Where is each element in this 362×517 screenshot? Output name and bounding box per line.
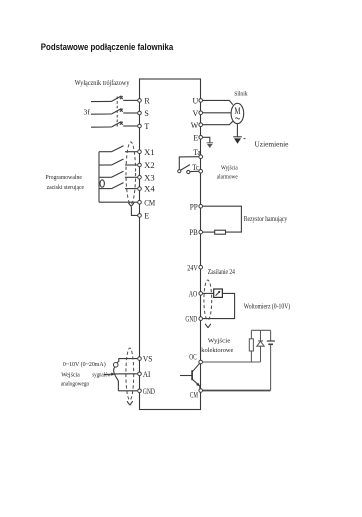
terminal X2 xyxy=(138,161,155,170)
terminal PP xyxy=(190,202,203,211)
terminal VS xyxy=(138,355,153,364)
terminal X4 xyxy=(138,185,155,194)
wire W to motor xyxy=(203,121,233,124)
potentiometer top contact xyxy=(113,363,118,368)
battery BT1 xyxy=(267,330,275,390)
terminal PB xyxy=(189,228,202,237)
svg-text:S: S xyxy=(144,109,148,118)
terminal GND left xyxy=(138,387,155,396)
shield arrow inputs xyxy=(128,203,134,207)
wire top rail xyxy=(251,329,270,331)
svg-text:Wejścia: Wejścia xyxy=(61,371,80,378)
wire E to ground xyxy=(203,137,210,142)
terminal CM right xyxy=(190,389,203,400)
wire Ta to relay xyxy=(179,157,198,170)
svg-text:0~10V (0~20mA): 0~10V (0~20mA) xyxy=(63,361,106,368)
svg-text:CM: CM xyxy=(190,390,198,399)
terminal W xyxy=(191,121,203,130)
svg-text:X2: X2 xyxy=(144,161,155,170)
label Wyjscia alarmowe xyxy=(217,164,238,180)
svg-text:24V: 24V xyxy=(187,263,198,272)
voltmeter P1 xyxy=(214,289,223,297)
wire motor to ground xyxy=(236,124,238,137)
terminal E left xyxy=(138,212,150,221)
breaker switch QF1 phase T xyxy=(91,122,137,128)
wire OC row xyxy=(203,361,261,363)
svg-text:V: V xyxy=(193,109,199,118)
svg-text:Silnik: Silnik xyxy=(234,91,248,98)
svg-text:Zasilanie 24: Zasilanie 24 xyxy=(208,268,236,276)
svg-text:kolektorowe: kolektorowe xyxy=(201,347,233,354)
wiper arrow xyxy=(104,373,115,376)
input bus wire xyxy=(98,152,100,203)
terminal X1 xyxy=(138,148,155,157)
svg-text:alarmowe: alarmowe xyxy=(217,174,238,181)
wire U to motor xyxy=(203,100,233,104)
motor M1 xyxy=(231,103,244,123)
svg-text:U: U xyxy=(193,97,199,106)
wire relay to Tc xyxy=(190,170,199,172)
svg-text:GND: GND xyxy=(185,315,197,324)
terminal T xyxy=(138,122,150,131)
switch X1 xyxy=(99,146,137,152)
terminal S xyxy=(138,109,149,118)
svg-text:X4: X4 xyxy=(144,185,155,194)
svg-text:GND: GND xyxy=(143,387,155,396)
switch X4 xyxy=(99,183,137,189)
wire PP loop xyxy=(203,206,242,232)
wire meter to GND xyxy=(203,293,235,318)
svg-text:VS: VS xyxy=(143,355,153,364)
terminal X3 xyxy=(138,173,155,182)
shield drain wire to E xyxy=(131,207,137,216)
svg-text:CM: CM xyxy=(144,198,155,207)
relay blade xyxy=(181,165,190,171)
svg-text:M: M xyxy=(234,107,241,117)
wire AO to meter xyxy=(203,292,214,294)
wire VS xyxy=(117,359,137,363)
callout ellipse on bus xyxy=(100,180,104,187)
terminal AO xyxy=(189,290,203,299)
shield ellipse inputs xyxy=(126,142,136,204)
wire PB to resistor xyxy=(203,231,215,233)
svg-text:Uziemienie: Uziemienie xyxy=(255,140,289,148)
inverter box U1 xyxy=(140,79,201,410)
svg-text:E: E xyxy=(144,212,149,221)
svg-text:Wyjście: Wyjście xyxy=(208,338,231,345)
svg-text:E: E xyxy=(193,133,198,142)
ground symbol E xyxy=(207,143,213,148)
terminal U xyxy=(193,97,203,106)
svg-text:X1: X1 xyxy=(144,148,155,157)
wire GND row xyxy=(118,390,137,392)
terminal CM left xyxy=(138,198,156,207)
svg-text:Wyjścia: Wyjścia xyxy=(221,164,238,171)
svg-text:PP: PP xyxy=(190,202,198,211)
svg-text:Tc: Tc xyxy=(192,163,199,172)
relay contact common xyxy=(178,170,181,173)
breaker switch QF1 phase S xyxy=(91,109,137,115)
diode D1 xyxy=(257,330,264,362)
terminal V xyxy=(193,109,203,118)
terminal Tc xyxy=(192,163,202,173)
svg-text:PB: PB xyxy=(189,228,198,237)
svg-text:OC: OC xyxy=(189,353,197,362)
svg-text:AO: AO xyxy=(189,290,198,299)
terminal GND right xyxy=(185,315,202,324)
terminal OC xyxy=(189,353,202,364)
wire CM rail xyxy=(203,390,271,392)
svg-text:sygnałów: sygnałów xyxy=(92,371,111,378)
svg-text:Wyłącznik trójfazowy: Wyłącznik trójfazowy xyxy=(75,79,130,87)
terminal E right xyxy=(193,133,202,142)
svg-text:T: T xyxy=(144,122,149,131)
svg-text:Podstawowe podłączenie falowni: Podstawowe podłączenie falownika xyxy=(41,42,174,52)
shield arrow analog xyxy=(127,401,133,405)
relay contact NC xyxy=(187,170,190,173)
terminal 24V xyxy=(187,263,202,272)
switch X3 xyxy=(99,171,137,177)
wire V to motor xyxy=(203,112,231,114)
transistor Q1 xyxy=(180,363,200,388)
wire CM common xyxy=(99,201,137,203)
potentiometer body RP1 xyxy=(114,367,119,391)
ground symbol motor xyxy=(233,137,245,144)
shield ellipse analog xyxy=(126,348,134,400)
wire AI wiper xyxy=(115,373,137,375)
label Programowalne zaciski sterujace xyxy=(46,174,85,191)
switch X2 xyxy=(99,159,137,165)
svg-text:3f: 3f xyxy=(84,108,91,117)
terminal AI xyxy=(138,370,151,379)
terminal R xyxy=(138,97,151,106)
resistor braking xyxy=(215,230,226,234)
svg-text:R: R xyxy=(144,97,150,106)
label Wyjscie kolektorowe xyxy=(201,338,233,355)
svg-text:W: W xyxy=(191,121,199,130)
breaker mechanical link xyxy=(116,97,118,127)
shield ellipse AO xyxy=(204,280,212,320)
resistor pull-up R2 xyxy=(249,330,253,362)
shield arrow AO xyxy=(205,324,211,328)
svg-text:analogowego: analogowego xyxy=(61,380,89,387)
svg-text:AI: AI xyxy=(143,370,151,379)
svg-text:X3: X3 xyxy=(144,173,155,182)
svg-text:Programowalne: Programowalne xyxy=(46,174,83,181)
terminal Ta xyxy=(193,148,202,158)
svg-text:zaciski sterujące: zaciski sterujące xyxy=(47,184,85,191)
svg-text:Woltomierz (0-10V): Woltomierz (0-10V) xyxy=(244,302,291,310)
svg-text:Rezystor hamujący: Rezystor hamujący xyxy=(244,215,288,223)
breaker switch QF1 phase R xyxy=(91,96,137,102)
